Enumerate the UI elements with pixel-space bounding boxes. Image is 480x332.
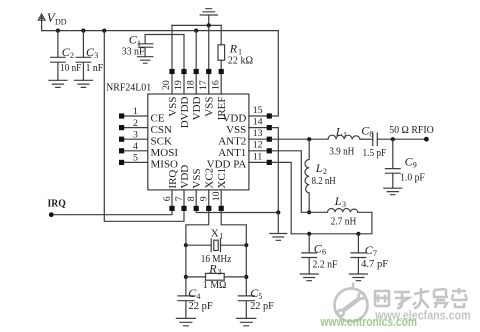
svg-text:18: 18	[185, 80, 196, 90]
svg-text:www.cntronics.com: www.cntronics.com	[320, 314, 417, 329]
svg-text:8: 8	[186, 196, 197, 201]
svg-text:ANT2: ANT2	[218, 136, 246, 148]
node R3 right	[244, 275, 248, 279]
crystal X1	[186, 239, 246, 252]
wire L1 to C8	[360, 138, 373, 140]
node L2 bottom junction	[307, 210, 311, 214]
capacitor C1	[138, 35, 184, 70]
svg-text:ANT1: ANT1	[218, 147, 246, 159]
wire C8 to RFIO	[377, 138, 426, 140]
svg-text:MOSI: MOSI	[151, 147, 179, 159]
svg-text:11: 11	[253, 151, 263, 162]
node X1 left	[184, 243, 188, 247]
svg-text:5: 5	[133, 153, 138, 164]
svg-text:MISO: MISO	[151, 159, 179, 171]
svg-text:5: 5	[258, 292, 262, 301]
svg-text:XC1: XC1	[216, 168, 228, 189]
ground C5	[237, 318, 256, 325]
svg-text:CE: CE	[151, 112, 165, 124]
svg-text:12: 12	[253, 140, 263, 151]
svg-text:3: 3	[133, 129, 138, 140]
svg-text:VSS: VSS	[167, 97, 179, 117]
svg-text:20: 20	[161, 80, 172, 90]
capacitor C3	[76, 31, 91, 81]
svg-text:DVDD: DVDD	[179, 96, 191, 128]
VDD power symbol	[38, 14, 45, 31]
svg-text:14: 14	[253, 117, 263, 128]
svg-text:8: 8	[369, 130, 373, 139]
svg-text:1: 1	[343, 131, 347, 140]
node VDD drop	[102, 29, 106, 33]
node RFIO terminal	[424, 137, 429, 142]
svg-text:8.2 nH: 8.2 nH	[312, 176, 337, 187]
capacitor C5	[238, 296, 254, 319]
svg-text:10 nF: 10 nF	[60, 63, 81, 74]
svg-text:VSS: VSS	[204, 97, 216, 117]
svg-text:1 nF: 1 nF	[86, 63, 104, 74]
wire pin8 VSS to ground	[196, 211, 278, 213]
pin leads bottom 6..10	[172, 190, 221, 206]
svg-text:2: 2	[323, 167, 327, 176]
svg-text:DD: DD	[55, 17, 67, 26]
svg-text:50 Ω RFIO: 50 Ω RFIO	[389, 124, 434, 136]
node pin18 tap	[194, 29, 198, 33]
node C2 tap	[56, 29, 60, 33]
svg-text:1: 1	[133, 106, 138, 117]
capacitor C9	[385, 139, 400, 188]
svg-text:IRQ: IRQ	[167, 170, 179, 189]
svg-text:1.5 pF: 1.5 pF	[363, 148, 387, 159]
wire pin11 VDD PA	[272, 162, 291, 233]
svg-text:19: 19	[173, 80, 184, 90]
svg-text:4.7 pF: 4.7 pF	[361, 259, 388, 270]
wire L3 right return	[291, 212, 372, 234]
capacitor C8	[373, 133, 378, 146]
node IRQ terminal	[49, 212, 54, 217]
svg-text:7: 7	[373, 249, 377, 258]
watermark chinese text	[374, 288, 467, 309]
svg-text:10: 10	[211, 191, 222, 201]
svg-text:VSS: VSS	[191, 168, 203, 188]
node C3 tap	[81, 29, 85, 33]
resistor R1	[220, 25, 222, 69]
inductor L3	[309, 209, 358, 213]
svg-text:3: 3	[94, 51, 98, 60]
svg-text:1.0 pF: 1.0 pF	[400, 172, 425, 183]
svg-text:2.2 nF: 2.2 nF	[313, 260, 338, 271]
wire VSS top rail	[172, 24, 221, 26]
svg-text:VDD: VDD	[191, 96, 203, 120]
svg-text:22 pF: 22 pF	[189, 301, 214, 312]
pin squares right	[267, 113, 272, 165]
svg-text:2: 2	[70, 51, 74, 60]
watermark logo circle	[335, 283, 368, 322]
node C9 tap	[391, 137, 395, 141]
svg-text:R: R	[229, 41, 238, 55]
wire pin17 riser	[208, 25, 210, 69]
capacitor C7	[351, 234, 366, 274]
pin leads top	[172, 74, 221, 94]
pin leads right 15..11	[249, 116, 267, 162]
node R3 left	[184, 275, 188, 279]
inductor L2	[305, 139, 309, 212]
capacitor C6	[302, 234, 317, 274]
wire crystal rails	[186, 245, 246, 296]
capacitor C2	[51, 31, 66, 81]
node X1 right	[244, 243, 248, 247]
svg-text:2: 2	[133, 118, 138, 129]
wire pin9 XC2	[186, 211, 209, 245]
ground pin14	[270, 213, 287, 241]
wire pin10 XC1	[221, 211, 246, 245]
pin squares top 20..16	[169, 69, 223, 74]
svg-text:22 pF: 22 pF	[250, 301, 274, 312]
ground C7	[349, 274, 367, 281]
svg-text:3.9 nH: 3.9 nH	[329, 147, 355, 158]
svg-text:4: 4	[133, 141, 138, 152]
svg-text:IREF: IREF	[216, 97, 228, 121]
pin squares left	[119, 113, 124, 165]
op chip body NRF24L01	[148, 94, 249, 190]
svg-text:16: 16	[210, 80, 221, 90]
svg-text:NRF24L01: NRF24L01	[106, 82, 151, 93]
pin leads left 1..5	[124, 116, 148, 162]
node L1/L2 junction	[307, 137, 311, 141]
ground C9	[384, 188, 402, 195]
svg-text:3: 3	[218, 268, 222, 277]
svg-text:IRQ: IRQ	[48, 198, 66, 209]
svg-text:4: 4	[196, 292, 200, 301]
wire pin14 VSS drop	[272, 128, 278, 213]
svg-text:17: 17	[198, 80, 209, 90]
ground (inverted, top)	[200, 9, 217, 26]
svg-text:9: 9	[199, 196, 210, 201]
svg-text:L: L	[334, 194, 342, 208]
node VSS join	[276, 210, 280, 214]
svg-text:6: 6	[322, 248, 326, 257]
ground C1	[138, 57, 153, 64]
svg-text:15: 15	[253, 105, 263, 116]
ground C4	[176, 318, 195, 325]
inductor L1	[328, 135, 360, 139]
wire VDD rail	[42, 30, 279, 32]
wire IRQ	[51, 211, 172, 215]
wire pin18 riser	[195, 31, 197, 69]
svg-text:X: X	[211, 228, 219, 240]
svg-text:7: 7	[174, 196, 185, 201]
svg-text:L: L	[315, 161, 323, 175]
svg-text:13: 13	[253, 128, 263, 139]
wire pin20 riser	[171, 25, 173, 69]
node C6 tap	[307, 232, 311, 236]
svg-text:1: 1	[219, 232, 223, 241]
capacitor C4	[178, 296, 194, 319]
svg-text:3: 3	[342, 200, 346, 209]
resistor R3	[186, 276, 246, 278]
ground C2	[49, 80, 67, 87]
svg-text:33 nF: 33 nF	[122, 47, 145, 58]
ground C6	[300, 274, 318, 281]
svg-text:9: 9	[413, 161, 417, 170]
svg-text:CSN: CSN	[151, 124, 172, 136]
wire VDD to pin7	[104, 31, 184, 222]
svg-text:1 MΩ: 1 MΩ	[203, 280, 227, 291]
svg-text:R: R	[208, 262, 217, 276]
svg-text:L: L	[335, 124, 343, 138]
ground C3	[74, 80, 92, 87]
svg-text:VSS: VSS	[226, 124, 246, 136]
node gnd stem	[207, 23, 211, 27]
wire pin12 ANT1	[272, 151, 309, 213]
svg-text:VDD: VDD	[179, 165, 191, 189]
svg-text:2.7 nH: 2.7 nH	[331, 216, 357, 227]
svg-text:SCK: SCK	[151, 136, 172, 148]
svg-text:6: 6	[162, 196, 173, 201]
pin squares bottom	[169, 206, 223, 211]
svg-text:XC2: XC2	[204, 168, 216, 189]
svg-text:22 kΩ: 22 kΩ	[228, 55, 254, 66]
wire pin13 ANT2 row	[272, 138, 328, 140]
wire pin15 riser	[272, 31, 278, 116]
node C7 tap	[356, 232, 360, 236]
